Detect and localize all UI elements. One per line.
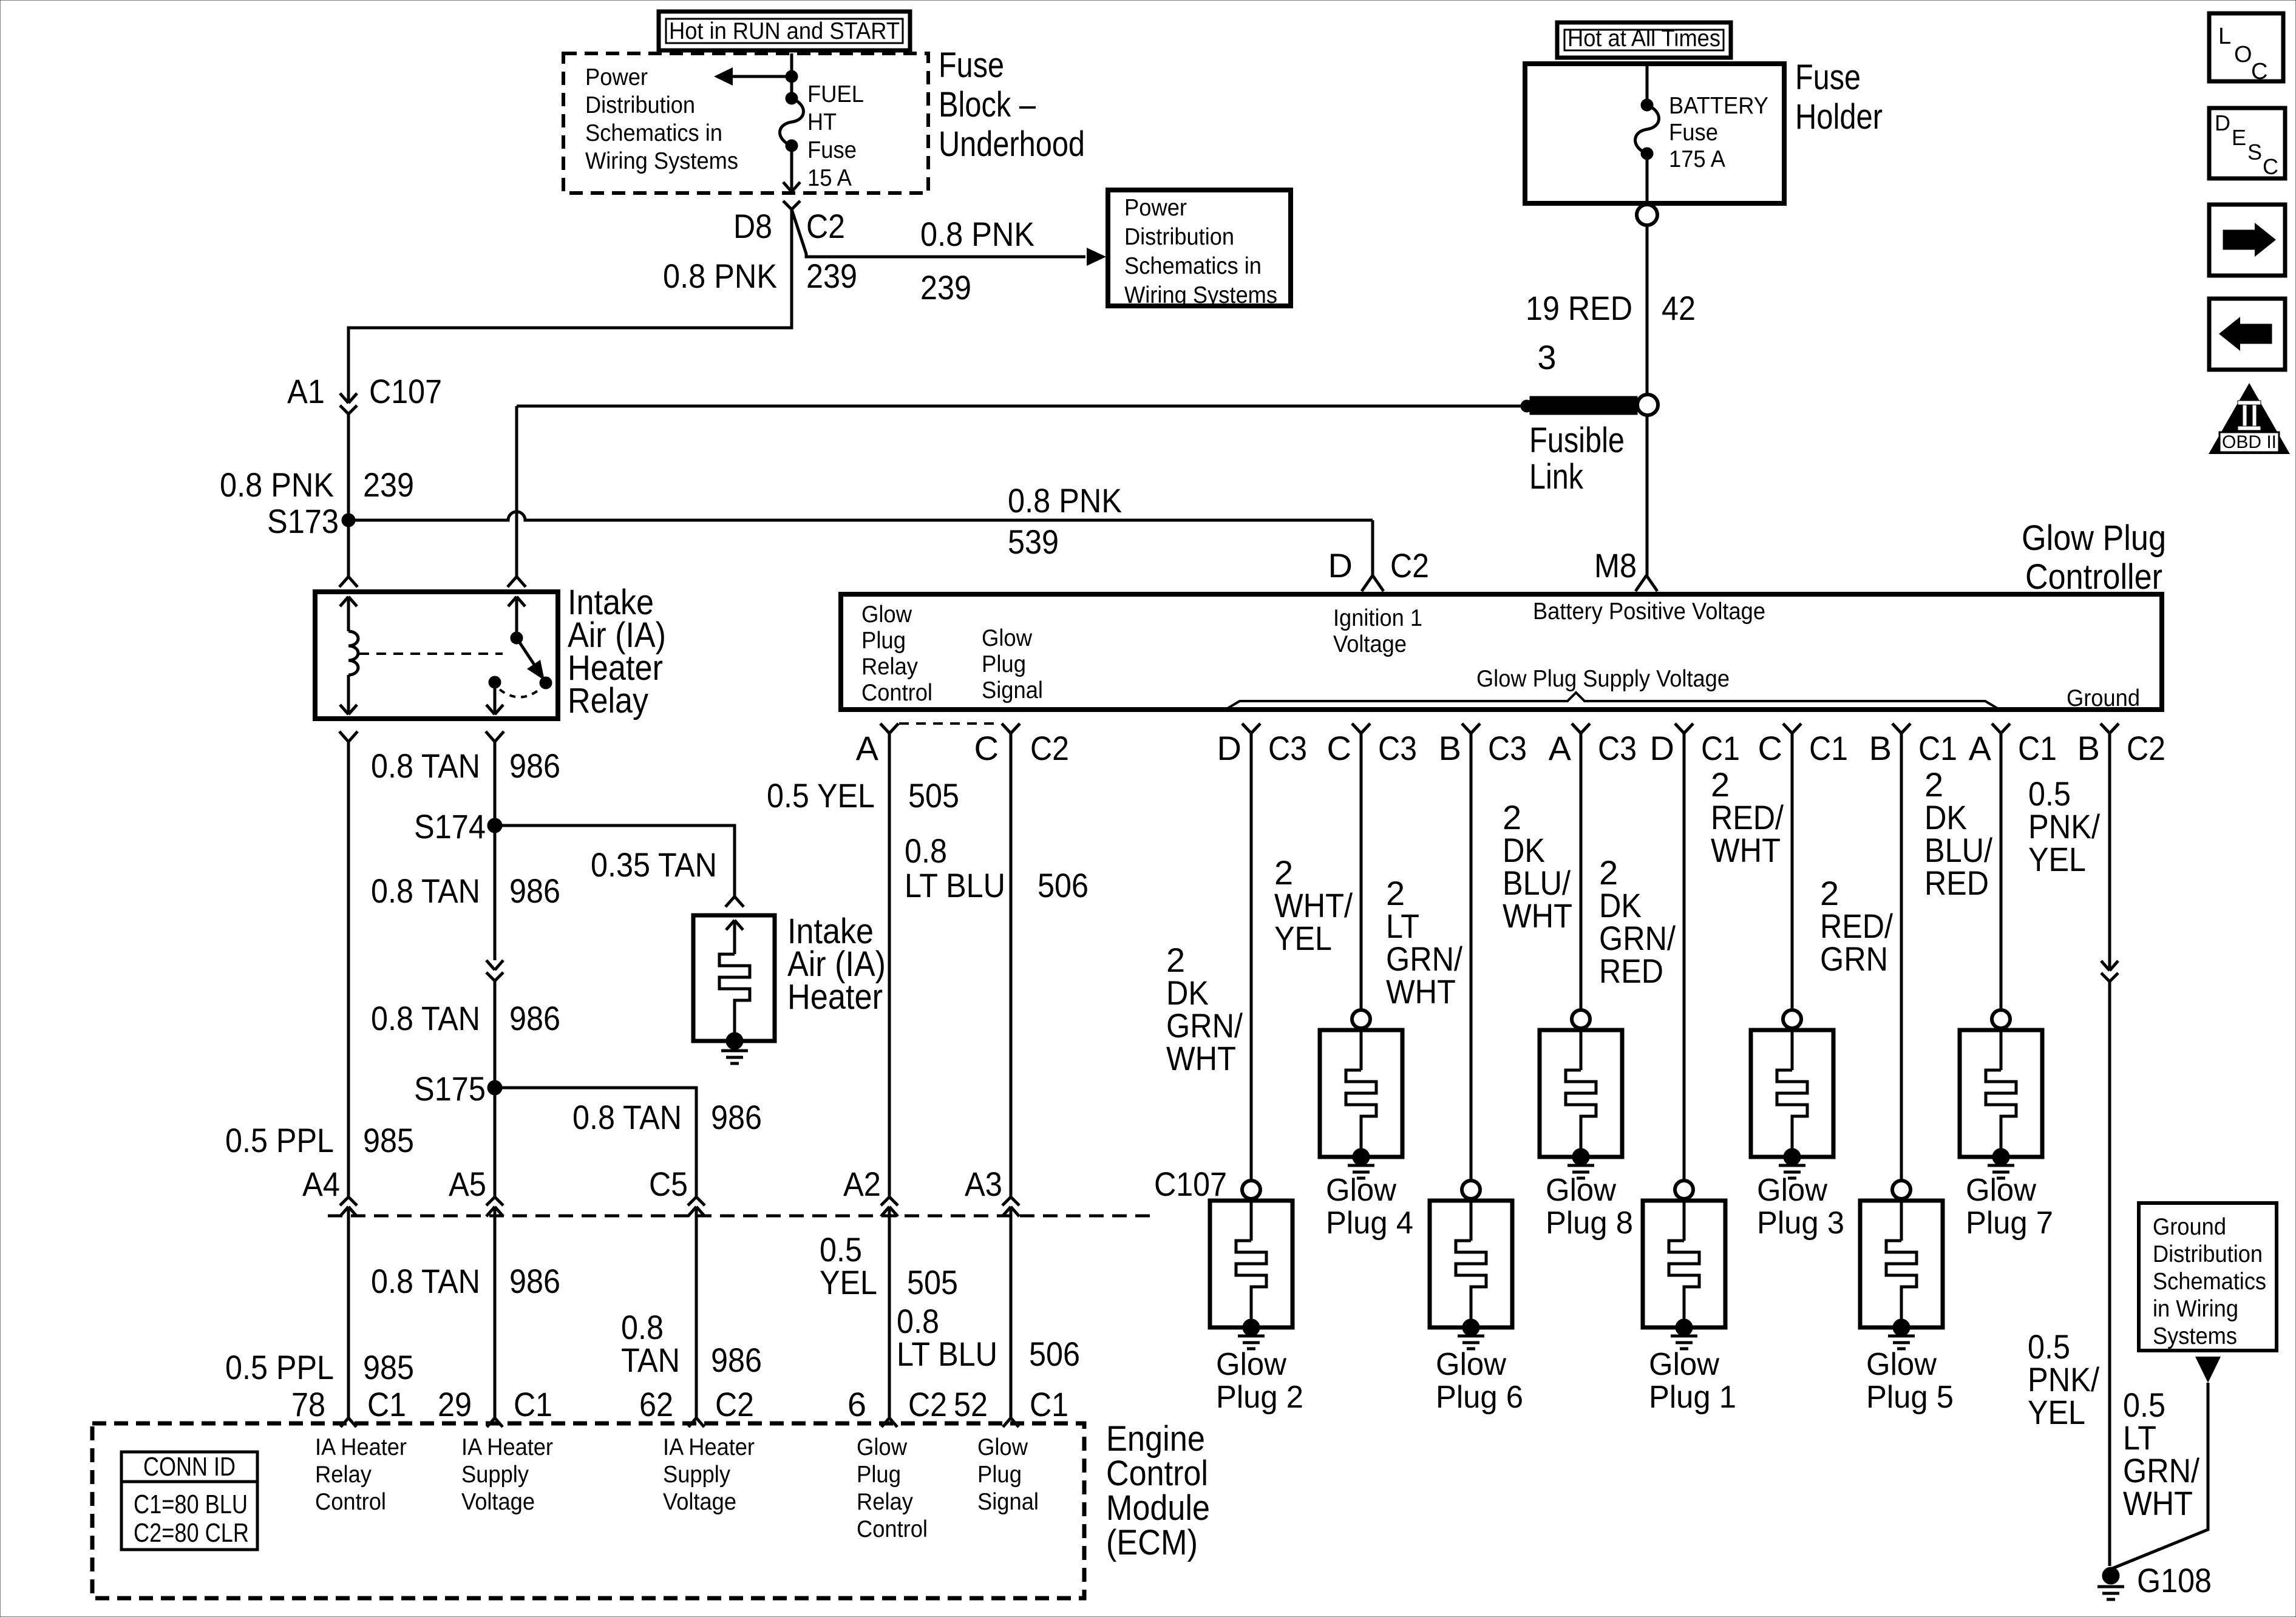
- label: C (pin letter): [1327, 729, 1351, 767]
- label: wire color for Glow Plug 1: [1599, 853, 1676, 990]
- label: FUEL HT Fuse 15 A: [807, 81, 864, 191]
- svg-text:C1: C1: [1918, 729, 1957, 767]
- label: D8: [733, 207, 772, 245]
- svg-text:C: C: [974, 729, 999, 767]
- wire: 0.8 PNK 239 from A1 to S173: [347, 414, 350, 520]
- svg-text:Hot in RUN and START: Hot in RUN and START: [669, 18, 900, 44]
- svg-text:WHT: WHT: [1386, 972, 1456, 1011]
- svg-text:Glow: Glow: [1546, 1173, 1616, 1208]
- svg-text:Signal: Signal: [982, 677, 1043, 703]
- label: 0.35 TAN: [591, 846, 717, 884]
- svg-text:D8: D8: [733, 207, 772, 245]
- label: C1 (connector): [1809, 729, 1848, 767]
- wire: fusible link feed to relay switch (battery trunk): [517, 400, 1533, 577]
- label: Glow Plug Relay Control (controller): [861, 602, 932, 706]
- label: D (controller top): [1328, 546, 1353, 585]
- svg-text:YEL: YEL: [1274, 919, 1332, 957]
- label: C2 (ECM pin connector): [715, 1385, 754, 1423]
- svg-text:986: 986: [711, 1098, 762, 1136]
- svg-text:B: B: [2077, 729, 2100, 767]
- svg-text:LT BLU: LT BLU: [897, 1335, 997, 1373]
- svg-text:Control: Control: [1106, 1454, 1208, 1493]
- pin: relay switch output exit: [486, 731, 504, 742]
- svg-text:Ground: Ground: [2153, 1214, 2226, 1240]
- svg-text:985: 985: [363, 1348, 414, 1386]
- pin: controller B/C3 supply for Glow Plug 6: [1462, 724, 1480, 733]
- svg-text:0.8 TAN: 0.8 TAN: [371, 747, 480, 785]
- label: Intake Air (IA) Heater: [787, 912, 886, 1017]
- label: 0.8 PNK (539 wire): [1008, 481, 1122, 520]
- label: 0.8 LT BLU (pin C): [905, 832, 1005, 904]
- svg-text:Voltage: Voltage: [663, 1489, 736, 1515]
- pin: relay coil top (from S173): [339, 577, 358, 631]
- label: A2: [843, 1165, 881, 1203]
- label: C1 (connector): [1918, 729, 1957, 767]
- glow plug: Glow Plug 4: [1320, 1010, 1402, 1178]
- connector: A2 at C107: [881, 1197, 898, 1216]
- svg-text:Ignition 1: Ignition 1: [1333, 605, 1422, 631]
- svg-text:WHT: WHT: [2123, 1484, 2193, 1522]
- svg-text:C2: C2: [908, 1385, 947, 1423]
- connector A1/C107 inline: [340, 393, 357, 414]
- label: 506 (pin C): [1038, 866, 1089, 904]
- svg-text:Fuse: Fuse: [1669, 120, 1718, 146]
- label: C2 (fuse block connector): [806, 207, 845, 245]
- svg-text:986: 986: [509, 1262, 560, 1300]
- label: 0.8 TAN (above S174): [371, 747, 480, 785]
- wire: supply to Glow Plug 3: [1791, 733, 1794, 1010]
- label: Engine Control Module (ECM): [1106, 1419, 1210, 1562]
- label: 239 (branch to power dist): [920, 268, 971, 307]
- label: C1 (ECM pin connector): [514, 1385, 552, 1423]
- svg-text:C: C: [2251, 59, 2267, 84]
- svg-text:C1: C1: [1809, 729, 1848, 767]
- svg-text:C1: C1: [1701, 729, 1740, 767]
- label: D (pin letter): [1650, 729, 1674, 767]
- svg-text:D: D: [1328, 546, 1353, 585]
- svg-text:Plug 2: Plug 2: [1216, 1380, 1303, 1415]
- svg-text:0.8 TAN: 0.8 TAN: [572, 1098, 682, 1136]
- label: A3: [965, 1165, 1002, 1203]
- box: Fuse Block - Underhood (dashed): [563, 53, 928, 193]
- wire: 0.8 PNK 239 branch to power distribution (diagonal + horizontal): [792, 209, 1106, 266]
- label: C1 (ECM pin connector): [1030, 1385, 1068, 1423]
- svg-text:WHT: WHT: [1711, 831, 1781, 869]
- svg-text:TAN: TAN: [621, 1341, 680, 1379]
- svg-text:505: 505: [907, 1263, 958, 1301]
- wire: supply to Glow Plug 4: [1360, 733, 1363, 1010]
- label: 0.8 TAN (C5-62): [621, 1308, 680, 1379]
- svg-text:986: 986: [509, 872, 560, 910]
- pin: ECM 29/C1: [487, 1418, 503, 1427]
- svg-text:RED: RED: [1924, 864, 1989, 902]
- svg-text:C2: C2: [1030, 729, 1069, 767]
- svg-text:19 RED: 19 RED: [1526, 289, 1632, 327]
- pin: ECM 78/C1: [341, 1418, 356, 1427]
- label: wire color for Glow Plug 3: [1711, 765, 1784, 869]
- label: B (ground pin): [2077, 729, 2100, 767]
- svg-text:HT: HT: [807, 109, 837, 135]
- label: Glow Plug 4: [1326, 1173, 1413, 1241]
- svg-text:Controller: Controller: [2025, 557, 2162, 597]
- svg-text:Voltage: Voltage: [461, 1489, 535, 1515]
- label: Glow Plug 5: [1866, 1347, 1954, 1415]
- label: 986 (A5-29): [509, 1262, 560, 1300]
- node S174 splice: [487, 818, 502, 833]
- svg-text:Relay: Relay: [568, 681, 648, 720]
- label: IA Heater Supply Voltage (ECM pin 62): [663, 1434, 755, 1515]
- label: 986 (above S175): [509, 999, 560, 1037]
- svg-text:Schematics: Schematics: [2153, 1269, 2266, 1295]
- svg-text:L: L: [2218, 24, 2231, 49]
- connector: A5 at C107: [486, 1197, 503, 1216]
- svg-text:986: 986: [509, 747, 560, 785]
- svg-text:42: 42: [1662, 289, 1696, 327]
- svg-text:D: D: [1217, 729, 1241, 767]
- label: Power Distribution Schematics in Wiring Systems (fuse block): [585, 64, 738, 174]
- svg-text:Glow: Glow: [1757, 1173, 1827, 1208]
- fuse: BATTERY Fuse 175 A: [1635, 99, 1659, 160]
- svg-text:78: 78: [291, 1385, 325, 1423]
- label: C2 (ECM pin connector): [908, 1385, 947, 1423]
- svg-text:Glow Plug: Glow Plug: [2022, 518, 2166, 558]
- svg-text:Block –: Block –: [939, 85, 1036, 124]
- svg-text:Control: Control: [857, 1516, 928, 1542]
- label: 505 (pin A): [908, 776, 959, 815]
- box: CONN ID legend: [121, 1452, 257, 1550]
- svg-text:505: 505: [908, 776, 959, 815]
- wire: supply to Glow Plug 2: [1250, 733, 1253, 1181]
- label: C1 (ECM pin connector): [367, 1385, 406, 1423]
- svg-text:Relay: Relay: [315, 1462, 372, 1488]
- controller: Glow Plug Controller box: [841, 594, 2162, 710]
- svg-text:Module: Module: [1106, 1488, 1210, 1528]
- svg-text:S: S: [2247, 140, 2262, 164]
- svg-text:C: C: [2263, 154, 2278, 179]
- label: B (pin letter): [1869, 729, 1892, 767]
- svg-text:0.5 PPL: 0.5 PPL: [225, 1121, 334, 1159]
- svg-text:C2: C2: [2127, 729, 2165, 767]
- svg-text:Distribution: Distribution: [2153, 1241, 2263, 1267]
- label: wire color for Glow Plug 8: [1503, 798, 1572, 935]
- label: Glow Plug Relay Control (ECM): [857, 1434, 928, 1542]
- glow plug: Glow Plug 7: [1960, 1010, 2042, 1178]
- svg-text:IA Heater: IA Heater: [663, 1434, 755, 1460]
- pin: controller A/C3 supply for Glow Plug 8: [1572, 724, 1590, 733]
- wire: C107 to ECM: [888, 1208, 891, 1418]
- pin: controller D/C1 supply for Glow Plug 1: [1675, 724, 1693, 733]
- svg-text:C5: C5: [649, 1165, 688, 1203]
- svg-text:52: 52: [954, 1385, 988, 1423]
- glow plug: Glow Plug 6: [1430, 1181, 1512, 1349]
- label: Glow Plug Signal (ECM): [977, 1434, 1039, 1515]
- box: Hot at All Times (double border): [1557, 22, 1731, 58]
- svg-text:Power: Power: [585, 64, 648, 90]
- svg-text:C: C: [1327, 729, 1351, 767]
- wire: 0.5 PPL 985 coil low side to A4: [347, 742, 350, 1197]
- label: 0.8 PNK (branch to power dist): [920, 215, 1034, 253]
- label: A (pin letter): [1549, 729, 1572, 767]
- wire: supply to Glow Plug 5: [1900, 733, 1903, 1181]
- svg-text:Ground: Ground: [2067, 685, 2140, 711]
- label: 239 (D8 drop): [806, 257, 857, 295]
- label: G108: [2137, 1561, 2212, 1599]
- wire: C107 to ECM: [1010, 1208, 1013, 1418]
- glow plug: Glow Plug 1: [1643, 1181, 1725, 1349]
- svg-text:A1: A1: [287, 372, 325, 410]
- svg-text:15 A: 15 A: [807, 165, 852, 191]
- label: B (pin letter): [1439, 729, 1461, 767]
- wire: Hot-in-RUN feed into fuse block (net 339): [786, 53, 798, 92]
- svg-text:BATTERY: BATTERY: [1669, 93, 1768, 119]
- label: A1: [287, 372, 325, 410]
- svg-text:986: 986: [711, 1341, 762, 1379]
- svg-text:Control: Control: [315, 1489, 386, 1515]
- label: 985 (A4-78): [363, 1348, 414, 1386]
- svg-text:Glow: Glow: [857, 1434, 908, 1460]
- svg-text:Glow: Glow: [982, 625, 1033, 651]
- label: 0.5 LT GRN/WHT: [2123, 1386, 2199, 1522]
- svg-text:986: 986: [509, 999, 560, 1037]
- label: Ignition 1 Voltage: [1333, 605, 1422, 657]
- svg-text:Voltage: Voltage: [1333, 631, 1407, 657]
- svg-text:Systems: Systems: [2153, 1323, 2237, 1349]
- label: C107 (A1): [369, 372, 442, 410]
- node S173 splice: [342, 514, 355, 527]
- glow plug: Glow Plug 5: [1860, 1181, 1943, 1349]
- wire: fuse output with arrowhead at fuse block edge: [783, 146, 800, 192]
- svg-text:S174: S174: [414, 807, 486, 846]
- wire: 0.8 TAN 986 S174 to inline connector: [494, 825, 497, 960]
- label: 986 (above S174): [509, 747, 560, 785]
- connector D8/C2 below fuse block: [783, 201, 800, 209]
- label: Glow Plug 8: [1546, 1173, 1633, 1241]
- svg-text:Wiring Systems: Wiring Systems: [585, 148, 738, 174]
- svg-text:Glow: Glow: [1326, 1173, 1396, 1208]
- svg-text:Glow Plug Supply Voltage: Glow Plug Supply Voltage: [1476, 666, 1730, 692]
- label: 0.8 TAN (below S174): [371, 872, 480, 910]
- svg-text:WHT: WHT: [1166, 1039, 1236, 1077]
- svg-text:C1: C1: [1030, 1385, 1068, 1423]
- label: 0.8 PNK (above S173): [220, 466, 334, 504]
- label: Glow Plug 1: [1649, 1347, 1736, 1415]
- svg-text:Schematics in: Schematics in: [1124, 253, 1262, 279]
- label: A (controller pin): [856, 729, 879, 767]
- pin: relay switch feed top (from fusible link): [508, 577, 526, 633]
- wire: supply to Glow Plug 8: [1580, 733, 1583, 1010]
- pin: ECM 62/C2: [688, 1418, 704, 1427]
- label: Glow Plug 2: [1216, 1347, 1303, 1415]
- label: A5: [449, 1165, 486, 1203]
- wire: 0.5 YEL 505 pin A to A2: [888, 733, 891, 1197]
- svg-text:C3: C3: [1488, 729, 1527, 767]
- svg-text:Relay: Relay: [861, 654, 918, 680]
- label: 986 (C5 branch): [711, 1098, 762, 1136]
- label: C3 (connector): [1598, 729, 1637, 767]
- svg-text:FUEL: FUEL: [807, 81, 864, 107]
- svg-text:Supply: Supply: [461, 1462, 529, 1488]
- pin: controller M8 battery input: [1635, 575, 1657, 591]
- label: 42: [1662, 289, 1696, 327]
- svg-text:C107: C107: [1154, 1165, 1227, 1203]
- svg-text:B: B: [1439, 729, 1461, 767]
- connector: inline on IA heater supply wire: [486, 960, 503, 981]
- svg-text:175 A: 175 A: [1669, 146, 1725, 172]
- label: Glow Plug Supply Voltage: [1476, 666, 1730, 692]
- label: C (pin letter): [1758, 729, 1782, 767]
- label: 0.5 PPL (above A4): [225, 1121, 334, 1159]
- pin: ECM 6/C2: [881, 1418, 897, 1427]
- svg-text:0.5 YEL: 0.5 YEL: [767, 776, 875, 815]
- svg-text:S173: S173: [267, 502, 339, 540]
- icon: back arrow box: [2209, 299, 2285, 370]
- label: Battery Positive Voltage: [1533, 598, 1765, 625]
- label: D (pin letter): [1217, 729, 1241, 767]
- svg-text:G108: G108: [2137, 1561, 2212, 1599]
- svg-text:239: 239: [920, 268, 971, 307]
- svg-text:239: 239: [363, 466, 414, 504]
- label: 19 RED: [1526, 289, 1632, 327]
- svg-text:Glow: Glow: [1966, 1173, 2036, 1208]
- svg-text:A: A: [856, 729, 879, 767]
- svg-text:Glow: Glow: [861, 602, 912, 628]
- svg-text:C: C: [1758, 729, 1782, 767]
- switch: relay movable contact: [511, 632, 552, 689]
- svg-text:IA Heater: IA Heater: [315, 1434, 407, 1460]
- pin: controller C/C3 supply for Glow Plug 4: [1352, 724, 1370, 733]
- icon: DESC box: [2209, 108, 2285, 179]
- svg-text:62: 62: [639, 1385, 673, 1423]
- dashed link: pin A to pin C: [899, 722, 1001, 725]
- label: 0.5 YEL (A2-6): [820, 1230, 877, 1301]
- fusible link bar: [1530, 396, 1637, 415]
- svg-text:GRN: GRN: [1820, 940, 1888, 978]
- label: Fusible Link: [1529, 421, 1625, 497]
- label: 0.8 PNK (D8 drop): [663, 257, 777, 295]
- label: 0.8 LT BLU (A3-52): [897, 1302, 997, 1373]
- svg-text:C1=80 BLU: C1=80 BLU: [134, 1490, 248, 1519]
- svg-text:Glow: Glow: [1866, 1347, 1937, 1382]
- heater: Intake Air (IA) Heater box: [693, 897, 775, 1063]
- wire: supply to Glow Plug 1: [1683, 733, 1686, 1181]
- svg-text:0.8: 0.8: [905, 832, 947, 870]
- box: Engine Control Module ECM (dashed): [92, 1423, 1084, 1598]
- svg-text:M8: M8: [1594, 546, 1637, 585]
- label: A (pin letter): [1969, 729, 1992, 767]
- label: C107 (ECM row): [1154, 1165, 1227, 1203]
- label: C3 (connector): [1378, 729, 1417, 767]
- svg-text:985: 985: [363, 1121, 414, 1159]
- svg-text:C1: C1: [2018, 729, 2057, 767]
- connector: C5 at C107: [688, 1197, 705, 1216]
- label: 6 (ECM pin): [847, 1385, 866, 1423]
- connector: A3 at C107: [1002, 1197, 1019, 1216]
- box: Hot in RUN and START (double border): [659, 12, 910, 50]
- svg-text:539: 539: [1008, 523, 1059, 561]
- dashed link: coil to switch: [359, 653, 503, 655]
- svg-text:Plug: Plug: [982, 651, 1026, 677]
- label: Fuse Block - Underhood: [939, 46, 1085, 164]
- wire: supply to Glow Plug 6: [1470, 733, 1473, 1181]
- wire: 0.5 PNK/YEL ground upper segment: [2108, 733, 2111, 971]
- svg-text:Relay: Relay: [857, 1489, 913, 1515]
- label: 505 (A2-6): [907, 1263, 958, 1301]
- svg-text:Glow: Glow: [1216, 1347, 1286, 1382]
- svg-text:Battery Positive Voltage: Battery Positive Voltage: [1533, 598, 1765, 625]
- svg-text:A: A: [1969, 729, 1992, 767]
- svg-text:Glow: Glow: [1436, 1347, 1506, 1382]
- icon: forward arrow box: [2209, 205, 2285, 276]
- fuse: FUEL HT Fuse 15 A: [780, 92, 804, 152]
- label: 29 (ECM pin): [438, 1385, 472, 1423]
- label: 52 (ECM pin): [954, 1385, 988, 1423]
- label: 0.5 YEL (pin A): [767, 776, 875, 815]
- svg-text:(ECM): (ECM): [1106, 1523, 1198, 1562]
- label: wire color for Glow Plug 5: [1820, 874, 1893, 978]
- svg-text:Plug 7: Plug 7: [1966, 1205, 2053, 1241]
- svg-text:Heater: Heater: [787, 977, 883, 1017]
- svg-text:WHT: WHT: [1503, 897, 1572, 935]
- svg-text:0.8 PNK: 0.8 PNK: [920, 215, 1034, 253]
- node S175 splice: [487, 1080, 502, 1095]
- svg-text:Supply: Supply: [663, 1462, 730, 1488]
- svg-text:C3: C3: [1378, 729, 1417, 767]
- label: Glow Plug 3: [1757, 1173, 1844, 1241]
- label: 239 (above S173): [363, 466, 414, 504]
- svg-text:0.8 PNK: 0.8 PNK: [220, 466, 334, 504]
- connector: inline on ground wire: [2101, 961, 2118, 981]
- wire: 19 RED 42 battery wire down to M8: [1646, 225, 1649, 575]
- svg-text:B: B: [1869, 729, 1892, 767]
- label: 986 (C5-62): [711, 1341, 762, 1379]
- svg-text:0.8 TAN: 0.8 TAN: [371, 999, 480, 1037]
- pin: controller D/C3 supply for Glow Plug 2: [1242, 724, 1260, 733]
- label: Fuse Holder: [1795, 58, 1883, 137]
- label: 0.8 TAN (C5 branch): [572, 1098, 682, 1136]
- pin: ECM 52/C1: [1003, 1418, 1019, 1427]
- svg-text:A3: A3: [965, 1165, 1002, 1203]
- icon: OBD II triangle: [2209, 383, 2290, 454]
- node: fuse holder output (open circle): [1637, 205, 1657, 225]
- label: 0.5 PNK/YEL (upper): [2028, 775, 2100, 878]
- svg-text:Distribution: Distribution: [585, 92, 695, 118]
- label: C1 (connector): [2018, 729, 2057, 767]
- svg-text:Schematics in: Schematics in: [585, 120, 722, 146]
- svg-text:O: O: [2234, 42, 2252, 67]
- svg-text:Plug 8: Plug 8: [1546, 1205, 1633, 1241]
- brace: glow plug supply pins: [1228, 693, 1999, 709]
- label: C3 (connector): [1268, 729, 1307, 767]
- glow plug: Glow Plug 3: [1751, 1010, 1833, 1178]
- dashed arc: switch throw: [500, 688, 541, 697]
- label: wire color for Glow Plug 2: [1166, 941, 1243, 1077]
- wire: C107 to ECM: [347, 1208, 350, 1418]
- box: Power Distribution Schematics in Wiring Systems (right): [1108, 190, 1291, 308]
- connector row C107 (dashed): [328, 1215, 1153, 1218]
- wire: 0.5 PNK/YEL ground lower segment to G108: [2108, 981, 2111, 1566]
- wire: 0.8 TAN 986 branch S175 to C5: [495, 1088, 696, 1197]
- wire: 0.8 TAN 986 connector to S175: [494, 981, 497, 1088]
- svg-text:0.8 PNK: 0.8 PNK: [663, 257, 777, 295]
- wire: supply to Glow Plug 7: [2000, 733, 2003, 1010]
- wire: S173 down to IA heater relay coil: [347, 527, 350, 577]
- svg-text:D: D: [2215, 110, 2230, 135]
- svg-text:C1: C1: [514, 1385, 552, 1423]
- svg-text:A2: A2: [843, 1165, 881, 1203]
- svg-text:Engine: Engine: [1106, 1419, 1205, 1459]
- pin: controller D/C2 ignition input: [1362, 575, 1384, 591]
- svg-text:C3: C3: [1598, 729, 1637, 767]
